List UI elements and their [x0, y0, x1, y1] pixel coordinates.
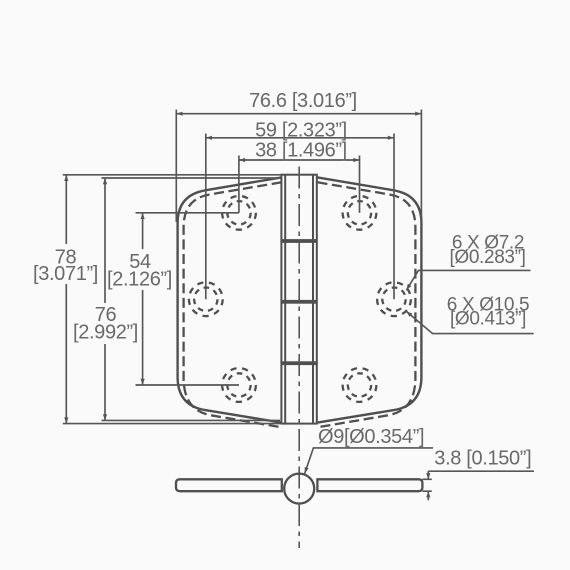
svg-text:38 [1.496”]: 38 [1.496”] [255, 140, 347, 162]
barrel (knuckle column) [281, 175, 316, 424]
side view right leaf bar [317, 479, 422, 491]
dimension 76 leaf height [102, 178, 281, 420]
label 6 X Ø10.5 with leader [406, 311, 534, 333]
svg-text:[Ø0.413”]: [Ø0.413”] [450, 309, 526, 330]
hinge leaf left (solid outline) [178, 177, 282, 422]
knuckle joint 2 [281, 300, 316, 304]
hidden leaf right (dashed outline) [318, 182, 416, 427]
dimension 78 overall height [63, 175, 282, 424]
dimension 3.8 leaf thickness [422, 471, 534, 500]
knuckle joint 3 [281, 361, 316, 365]
centerline (vertical dash-dot axis) [298, 167, 300, 549]
svg-text:[3.071”]: [3.071”] [33, 263, 98, 285]
dimension 38 hole span [239, 156, 360, 213]
svg-text:[2.126”]: [2.126”] [107, 269, 172, 291]
side view left leaf bar [176, 479, 282, 491]
side view barrel circle [284, 474, 314, 504]
hole bottom-right [343, 368, 377, 402]
knuckle joint 1 [281, 239, 316, 243]
dimension 76.6 overall width [176, 110, 421, 223]
hole middle-left [189, 282, 223, 316]
hinge leaf right (solid outline) [318, 177, 422, 422]
hole top-left [222, 196, 256, 230]
svg-text:76.6 [3.016”]: 76.6 [3.016”] [249, 90, 357, 112]
hole top-right [343, 196, 377, 230]
svg-text:[Ø0.283”]: [Ø0.283”] [449, 247, 525, 268]
svg-text:3.8 [0.150”]: 3.8 [0.150”] [434, 448, 531, 470]
dimension 54 hole row span [136, 213, 240, 385]
label 6 X Ø7.2 with leader [406, 270, 530, 290]
svg-text:[2.992”]: [2.992”] [73, 322, 138, 344]
svg-text:Ø9[Ø0.354”]: Ø9[Ø0.354”] [318, 426, 424, 448]
hole bottom-left [222, 368, 256, 402]
hidden leaf left (dashed outline) [184, 182, 282, 427]
dimension 59 hole span [206, 134, 394, 300]
hole middle-right [377, 282, 411, 316]
label Ø9 pin with leader [305, 448, 433, 474]
svg-text:59 [2.323”]: 59 [2.323”] [255, 120, 347, 142]
